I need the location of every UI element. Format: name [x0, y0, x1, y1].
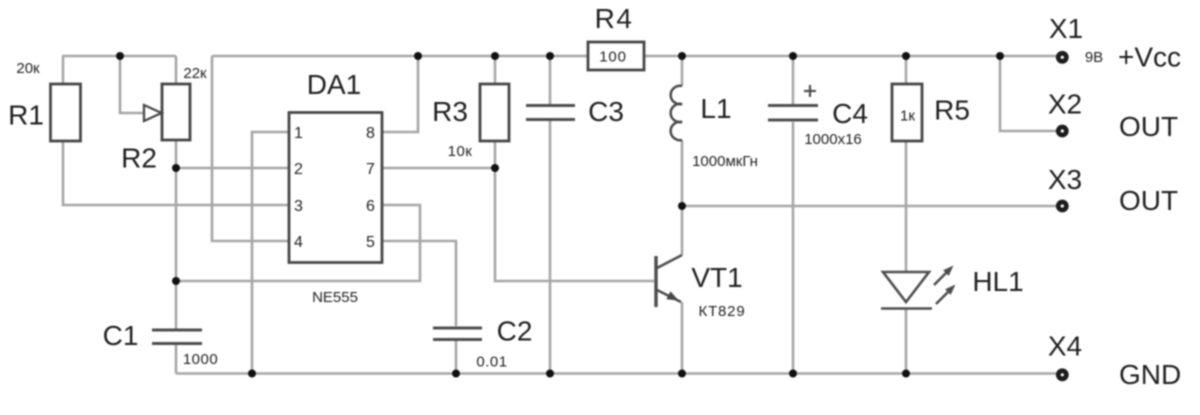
svg-text:R1: R1	[8, 100, 44, 131]
svg-text:C1: C1	[103, 320, 139, 351]
svg-text:HL1: HL1	[972, 266, 1023, 297]
svg-text:L1: L1	[700, 93, 731, 124]
svg-text:КТ829: КТ829	[699, 303, 746, 320]
svg-text:10к: 10к	[448, 143, 473, 160]
svg-text:X1: X1	[1049, 13, 1083, 44]
svg-text:0.01: 0.01	[476, 354, 507, 371]
svg-text:1к: 1к	[900, 108, 915, 125]
svg-text:OUT: OUT	[1119, 185, 1178, 216]
svg-text:9В: 9В	[1085, 49, 1103, 66]
svg-text:7: 7	[366, 161, 375, 178]
svg-text:22к: 22к	[183, 65, 207, 82]
svg-text:1000: 1000	[183, 351, 218, 368]
svg-text:8: 8	[366, 125, 375, 142]
svg-text:6: 6	[366, 198, 375, 215]
svg-text:R2: R2	[121, 143, 157, 174]
svg-text:+Vcc: +Vcc	[1118, 42, 1181, 73]
svg-text:X3: X3	[1048, 164, 1082, 195]
svg-text:100: 100	[599, 49, 626, 66]
svg-text:5: 5	[366, 234, 375, 251]
svg-text:GND: GND	[1119, 359, 1181, 390]
svg-text:NE555: NE555	[312, 289, 358, 306]
svg-text:DA1: DA1	[307, 69, 361, 100]
svg-text:X4: X4	[1048, 331, 1082, 362]
svg-text:R3: R3	[432, 96, 468, 127]
svg-text:20к: 20к	[16, 60, 40, 77]
svg-text:R4: R4	[595, 3, 634, 34]
svg-text:1: 1	[294, 125, 303, 142]
svg-text:C2: C2	[497, 316, 533, 347]
svg-text:C4: C4	[832, 98, 868, 129]
svg-text:1000мкГн: 1000мкГн	[692, 153, 758, 170]
svg-text:VT1: VT1	[691, 262, 742, 293]
svg-text:3: 3	[294, 198, 303, 215]
svg-text:C3: C3	[588, 96, 624, 127]
svg-text:X2: X2	[1048, 89, 1082, 120]
svg-text:R5: R5	[934, 95, 970, 126]
svg-text:OUT: OUT	[1119, 111, 1178, 142]
svg-text:4: 4	[294, 234, 303, 251]
svg-text:1000x16: 1000x16	[804, 131, 862, 148]
svg-text:2: 2	[294, 161, 303, 178]
